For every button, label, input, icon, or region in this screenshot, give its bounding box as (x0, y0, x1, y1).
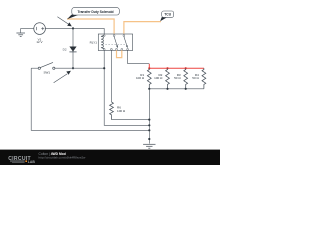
wire red bus (149, 64, 204, 68)
wire relay coil bottom down to ground bus (104, 51, 149, 126)
node junction top of D2 (72, 27, 74, 29)
label R4 (192, 73, 199, 80)
svg-text:http://circuitlab.com/c6kk4R8s: http://circuitlab.com/c6kk4R8sxe2w (39, 156, 87, 160)
wire relay pin NO2 to resistor bank (128, 50, 150, 63)
wire solenoid flag to relay COM1 (67, 19, 114, 34)
svg-text:50 Ω: 50 Ω (192, 76, 199, 80)
relay dashed actuator line (105, 43, 126, 45)
resistor R4 (202, 68, 206, 89)
label R3 (174, 73, 181, 80)
label R1 (136, 73, 145, 80)
ground GND2 (143, 144, 155, 148)
label R2 (154, 73, 163, 80)
relay pin circles bottom (103, 48, 128, 50)
relay RLY1 box (98, 34, 132, 51)
svg-text:SW1: SW1 (43, 71, 50, 75)
resistor R6 (110, 102, 114, 120)
wire relay pin NC1 to R6 (111, 50, 113, 102)
flag TCU (160, 11, 174, 21)
switch SW1 (31, 62, 104, 69)
wire orange U under relay (117, 50, 122, 57)
wire V1 minus to ground (21, 27, 34, 29)
node junction coil-bottom / SW1 row (103, 67, 105, 69)
relay pin circles top (103, 35, 125, 37)
highlighted net wires (orange) (67, 19, 161, 58)
svg-text:LAB: LAB (28, 160, 36, 164)
resistor R3 (184, 68, 188, 89)
svg-text:TCU: TCU (164, 13, 171, 17)
ground GND1 (left of V1) (16, 28, 25, 36)
wire ground trunk (148, 89, 150, 144)
svg-text:100 Ω: 100 Ω (136, 76, 145, 80)
node junction D2 bottom / SW1 row (72, 67, 74, 69)
wire relay COM2 to TCU flag (124, 22, 161, 34)
wire SW1 left down to ground bus (31, 68, 149, 130)
svg-text:12 V: 12 V (36, 40, 42, 44)
annotation arrow 1 (57, 17, 71, 27)
diode D2 (69, 47, 76, 52)
svg-text:D2: D2 (63, 48, 67, 52)
wire D2 branch vertical (72, 28, 74, 68)
label V1 12V (36, 37, 42, 44)
resistor R1 (147, 68, 151, 89)
svg-text:100 Ω: 100 Ω (117, 109, 126, 113)
voltage source V1 (34, 23, 46, 35)
relay switch lever 2 (124, 37, 127, 47)
wire V1 plus to relay coil top (45, 28, 104, 34)
resistor R2 (166, 68, 170, 89)
wire resistor bank bottom bus (149, 88, 204, 90)
node red junctions (148, 67, 187, 69)
annotation arrow 2 (54, 71, 71, 83)
footer band (0, 150, 220, 165)
relay coil (101, 35, 104, 49)
flag Transfer Duty Solenoid (67, 8, 119, 20)
node junctions on ground trunk (148, 119, 150, 141)
wire R6 bottom to ground bus (112, 119, 150, 121)
red highlighted bus (resistor bank top) (149, 64, 204, 68)
svg-text:100 Ω: 100 Ω (154, 76, 163, 80)
relay switch lever 1 (114, 37, 117, 47)
label R6 100ohm (117, 106, 126, 113)
svg-text:Transfer Duty Solenoid: Transfer Duty Solenoid (77, 10, 113, 14)
svg-text:50 Ω: 50 Ω (174, 76, 181, 80)
node junctions bottom bus (148, 88, 187, 90)
svg-text:RLY1: RLY1 (90, 41, 98, 45)
